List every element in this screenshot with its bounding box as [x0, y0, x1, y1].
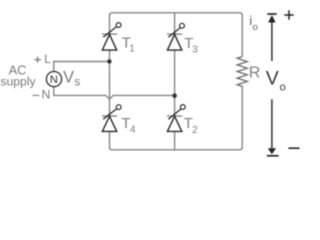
wire line N (neutral) from source with hop over left rail to middle rail — [54, 87, 175, 99]
thyristor T1 — [102, 23, 121, 50]
wire left rail node L down to T4 — [109, 62, 111, 117]
svg-text:V: V — [266, 67, 279, 89]
svg-text:V: V — [63, 69, 74, 87]
wire right rail resistor to bottom bus — [241, 87, 243, 148]
resistor R — [237, 57, 247, 88]
svg-text:N: N — [42, 88, 51, 102]
svg-text:3: 3 — [192, 45, 198, 56]
svg-text:N: N — [50, 74, 58, 86]
svg-text:R: R — [249, 64, 260, 81]
wire left rail T1 to node L — [109, 50, 111, 61]
wire left rail T4 to bottom bus — [109, 131, 111, 148]
node N junction dot — [172, 93, 177, 98]
node L junction dot — [107, 59, 111, 63]
label - (output negative) — [289, 147, 300, 149]
wire middle rail T2 to bottom bus — [174, 131, 176, 149]
AC source circle — [46, 72, 61, 87]
wire top bus — [110, 13, 243, 16]
wire middle rail node N to T2 — [174, 95, 176, 116]
svg-text:2: 2 — [192, 125, 198, 136]
wire left rail upper (top bus to T1) — [109, 15, 111, 35]
svg-text:4: 4 — [130, 124, 136, 135]
wire middle rail upper (top bus to T3) — [174, 13, 176, 34]
svg-text:supply: supply — [0, 75, 36, 89]
wire middle rail T3 to node N — [174, 50, 176, 95]
thyristor T2 — [167, 105, 185, 132]
thyristor T4 — [102, 105, 121, 132]
wire line L (phase) from source to left rail — [54, 62, 110, 72]
wire bottom bus — [110, 147, 243, 150]
label - of neutral terminal — [32, 94, 39, 96]
svg-text:s: s — [74, 75, 80, 89]
svg-text:o: o — [253, 22, 258, 33]
svg-text:L: L — [44, 52, 51, 66]
svg-text:1: 1 — [129, 43, 135, 54]
wire right rail upper (top bus to resistor R) — [241, 15, 243, 57]
label + of phase terminal — [34, 57, 41, 63]
svg-text:o: o — [280, 82, 286, 94]
label + (output positive) — [284, 10, 293, 19]
thyristor T3 — [167, 23, 184, 50]
output voltage arrow Vo — [267, 14, 279, 156]
